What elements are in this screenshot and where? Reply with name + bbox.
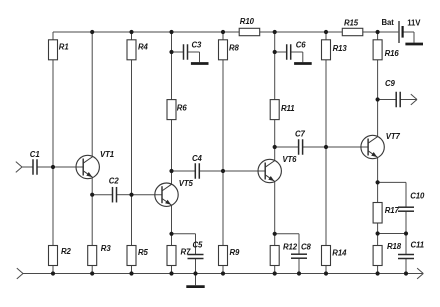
svg-text:R8: R8 [229, 43, 240, 52]
junction top rail / R8 [221, 30, 225, 34]
wire VT7 emitter to node E4 [377, 158, 379, 183]
resistor R18 [373, 242, 402, 266]
junction bottom rail / R2 [51, 271, 55, 275]
wire R13 top stub [325, 32, 327, 40]
wire node F to node G [378, 233, 406, 235]
wire C2 to node base2 [117, 194, 132, 196]
wire node base4 to VT7 base [326, 146, 368, 148]
junction bottom rail / R9 [221, 271, 225, 275]
resistor R5 [127, 246, 149, 266]
wire C4 to node base3 [199, 170, 223, 172]
wire R8 top stub [222, 32, 224, 40]
ground (C5) [186, 285, 204, 288]
svg-text:Bat: Bat [382, 18, 395, 27]
wire node out2 to C4 [172, 170, 196, 172]
svg-text:C1: C1 [30, 150, 40, 159]
resistor R12 [270, 243, 298, 266]
wire node E1 to R3 [91, 195, 93, 246]
wire node E3 to C8 [275, 233, 299, 235]
junction node out2 / C4 left [169, 169, 173, 173]
wire node C3 to R6 [171, 52, 173, 100]
wire R11 to node C7a [274, 120, 276, 147]
wire input to C1 [22, 166, 33, 168]
svg-text:VT5: VT5 [179, 179, 194, 188]
junction node E2 / C5 branch [169, 232, 173, 236]
svg-text:C9: C9 [385, 79, 396, 88]
wire node E2 to R7 [171, 234, 173, 246]
junction bottom rail / C8 [297, 271, 301, 275]
capacitor C6 [287, 40, 307, 59]
junction node E4 / C10 branch [376, 180, 380, 184]
junction top rail / VT1 collector [90, 30, 94, 34]
wire node base1 to VT1 base [53, 166, 83, 168]
wire node base2 to R5 [131, 195, 133, 246]
wire bottom ground rail [23, 273, 423, 275]
junction bottom rail / R18 [376, 271, 380, 275]
wire R1 top stub [52, 32, 54, 40]
capacitor C2 [109, 176, 120, 202]
wire node out4 to C9 [378, 99, 397, 101]
ground (C3) [191, 62, 209, 65]
wire node base1 to R2 [52, 167, 54, 246]
junction top rail / R16 (Bat node) [376, 30, 380, 34]
transistor VT1 [76, 150, 114, 179]
wire VT5 emitter to node E2 [171, 205, 173, 234]
input terminal arrow [16, 162, 22, 173]
capacitor C3 [184, 40, 203, 59]
wire R5 bottom stub [131, 266, 133, 274]
svg-text:R6: R6 [177, 103, 188, 112]
svg-text:R13: R13 [333, 44, 348, 53]
wire battery ground drop [413, 32, 415, 43]
svg-text:R5: R5 [138, 248, 149, 257]
svg-text:R2: R2 [61, 247, 72, 256]
wire C7 to node base4 [303, 146, 326, 148]
ground (C6) [294, 62, 312, 65]
output terminal arrow [411, 94, 417, 105]
wire top supply rail [53, 31, 398, 33]
capacitor C5 [188, 241, 204, 259]
node base2 (C2 right) [129, 193, 133, 197]
resistor R11 [270, 100, 294, 120]
wire C6 ground drop [302, 52, 304, 62]
svg-text:R12: R12 [283, 243, 298, 252]
battery Bat 11V [382, 18, 422, 43]
wire node C7a to C7 [275, 146, 299, 148]
svg-text:R17: R17 [385, 206, 400, 215]
wire node base3 to R9 [222, 171, 224, 246]
wire node base2 to VT5 base [132, 194, 163, 196]
resistor R6 [167, 100, 187, 120]
node base1 (C1/R1/R2/VT1 base) [51, 165, 55, 169]
junction bottom rail / R7 [169, 271, 173, 275]
resistor R3 [88, 244, 112, 266]
capacitor C8 [291, 243, 312, 259]
junction top rail / R13 [324, 30, 328, 34]
svg-text:C2: C2 [109, 176, 120, 185]
resistor R7 [167, 246, 191, 266]
wire node out4 to VT7 collector [377, 100, 379, 137]
wire bottom rail to ground symbol [195, 274, 197, 286]
junction bottom rail / C5 [193, 271, 197, 275]
wire rail to node C6 [274, 32, 276, 52]
svg-text:R10: R10 [240, 17, 255, 26]
wire VT1 emitter to node E1 [91, 178, 93, 195]
svg-text:VT7: VT7 [386, 132, 401, 141]
junction top rail / R4 [129, 30, 133, 34]
wire R2 bottom stub [52, 266, 54, 274]
transistor VT6 [258, 155, 297, 183]
svg-text:R18: R18 [387, 242, 402, 251]
wire node E1 to C2 [92, 194, 112, 196]
svg-text:C8: C8 [301, 243, 312, 252]
svg-text:R3: R3 [101, 244, 112, 253]
wire node G to C11 [405, 234, 407, 255]
wire R16 to node out4 [377, 60, 379, 100]
junction node out4 / C9 [376, 97, 380, 101]
wire C5 to bottom rail [195, 258, 197, 273]
svg-text:C7: C7 [295, 129, 306, 138]
wire node E4 to R17 [377, 182, 379, 202]
wire C9 to output [400, 99, 417, 101]
junction top rail / R11 branch [273, 30, 277, 34]
junction bottom rail / C11 [404, 271, 408, 275]
wire R13 to node base4 [325, 60, 327, 147]
wire R12 bottom stub [274, 266, 276, 274]
capacitor C4 [192, 154, 203, 179]
resistor R15 [342, 18, 363, 35]
junction bottom rail / R14 [324, 271, 328, 275]
svg-text:C11: C11 [411, 240, 424, 249]
wire battery to ground segment [403, 31, 415, 33]
wire C8 drop [298, 234, 300, 254]
wire node F to R18 [377, 234, 379, 246]
transistor VT7 [361, 132, 401, 159]
wire R14 bottom stub [325, 266, 327, 274]
junction bottom rail / R3 [90, 271, 94, 275]
wire R9 bottom stub [222, 266, 224, 274]
svg-text:R15: R15 [344, 18, 359, 27]
resistor R9 [219, 246, 241, 266]
wire R6 to node out2 [171, 120, 173, 185]
svg-text:R11: R11 [281, 104, 294, 113]
wire C5 drop [195, 234, 197, 255]
svg-text:C10: C10 [410, 192, 425, 201]
wire node C7a to VT6 collector [274, 147, 276, 161]
wire node C3 to C3 cap [172, 51, 184, 53]
ground rail right arrow [417, 268, 423, 279]
junction bottom rail / R5 [129, 271, 133, 275]
svg-text:C5: C5 [193, 241, 204, 250]
junction node E1 / C2 left [90, 193, 94, 197]
capacitor C11 [398, 240, 424, 258]
wire R4 top stub [131, 32, 133, 40]
wire C6 cap to ground drop [291, 51, 303, 53]
transistor VT5 [155, 179, 194, 207]
junction node E3 / C8 branch [273, 232, 277, 236]
svg-text:VT6: VT6 [282, 155, 297, 164]
wire C8 to bottom rail [298, 258, 300, 273]
ground rail left arrow [17, 268, 23, 279]
wire node E2 to C5 [172, 233, 196, 235]
wire C1 to node base1 [37, 166, 53, 168]
resistor R2 [49, 246, 72, 266]
wire node E3 to R12 [274, 234, 276, 246]
svg-text:R1: R1 [59, 42, 69, 51]
svg-text:11V: 11V [407, 19, 421, 28]
resistor R17 [373, 203, 399, 224]
svg-text:R9: R9 [230, 248, 241, 257]
svg-text:C6: C6 [296, 40, 307, 49]
junction bottom rail / R12 [273, 271, 277, 275]
ground (battery) [405, 43, 423, 46]
resistor R14 [322, 246, 348, 266]
wire node C6 to C6 cap [275, 51, 287, 53]
resistor R8 [219, 40, 240, 60]
svg-text:C4: C4 [192, 154, 203, 163]
resistor R4 [127, 40, 149, 60]
svg-text:VT1: VT1 [100, 150, 114, 159]
capacitor C10 [398, 192, 425, 212]
wire R4 to node base2 [131, 60, 133, 195]
node base3 (C4 right) [221, 169, 225, 173]
junction top rail / R6 branch [169, 30, 173, 34]
capacitor C1 [30, 150, 40, 175]
junction node C6 [273, 50, 277, 54]
capacitor C7 [295, 129, 306, 154]
wire node C6 to R11 [274, 52, 276, 100]
junction node F (R17/R18) [376, 231, 380, 235]
wire node base3 to VT6 base [223, 170, 265, 172]
resistor R16 [373, 40, 399, 60]
junction node G (C10/C11) [404, 231, 408, 235]
wire R1 to node base1 [52, 60, 54, 167]
wire VT6 emitter to node E3 [274, 182, 276, 234]
wire C10 to node G [405, 211, 407, 233]
resistor R1 [49, 40, 69, 60]
wire VT1 collector to rail [91, 32, 93, 157]
resistor R13 [322, 40, 348, 60]
wire R8 to node base3 [222, 60, 224, 171]
capacitor C9 [385, 79, 400, 107]
junction node C3 [169, 50, 173, 54]
wire C3 cap to ground drop [188, 51, 200, 53]
svg-text:C3: C3 [192, 40, 203, 49]
wire R16 top stub [377, 32, 379, 40]
wire R7 bottom stub [171, 266, 173, 274]
wire node base4 to R14 [325, 147, 327, 246]
wire rail to node C3 [171, 32, 173, 52]
svg-text:R16: R16 [385, 49, 400, 58]
wire C11 to bottom rail [405, 258, 407, 273]
wire R3 bottom stub [91, 266, 93, 274]
junction node C7a (VT6 collector) [273, 145, 277, 149]
svg-text:R14: R14 [332, 249, 347, 258]
resistor R10 [239, 17, 260, 36]
svg-text:R4: R4 [138, 42, 149, 51]
wire C3 ground drop [199, 52, 201, 62]
wire C10 drop [405, 182, 407, 207]
wire R18 bottom stub [377, 266, 379, 274]
wire R17 to node F [377, 223, 379, 234]
node base4 (C7 right) [324, 145, 328, 149]
wire node E4 to C10 [378, 181, 406, 183]
